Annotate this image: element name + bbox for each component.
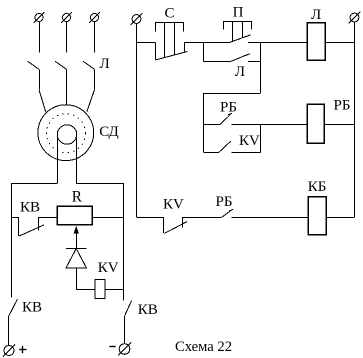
svg-text:КV: КV (239, 133, 260, 149)
svg-text:Л: Л (235, 64, 245, 80)
svg-text:КВ: КВ (138, 302, 158, 318)
svg-text:КV: КV (98, 260, 119, 276)
svg-text:R: R (72, 189, 83, 206)
svg-text:КВ: КВ (22, 299, 42, 315)
svg-text:СД: СД (99, 124, 119, 140)
svg-text:Л: Л (311, 7, 321, 23)
svg-text:П: П (233, 5, 244, 21)
svg-text:РБ: РБ (220, 100, 237, 116)
svg-text:Л: Л (100, 56, 110, 72)
svg-text:КВ: КВ (20, 200, 40, 216)
svg-text:РБ: РБ (216, 194, 233, 210)
svg-text:Схема 22: Схема 22 (175, 339, 232, 355)
svg-text:РБ: РБ (334, 98, 351, 114)
svg-text:С: С (165, 5, 175, 21)
svg-text:КБ: КБ (308, 179, 327, 195)
svg-text:КV: КV (163, 196, 184, 212)
